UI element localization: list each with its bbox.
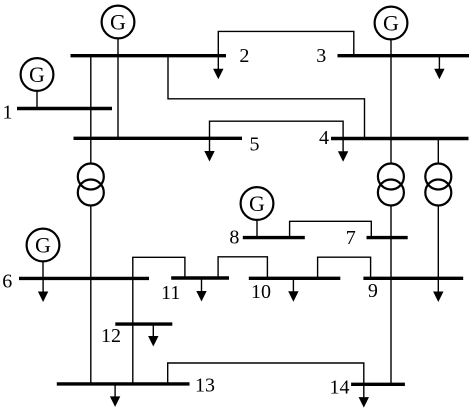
wire line 6-12 bbox=[132, 278, 134, 324]
bus 8 bar bbox=[243, 236, 305, 239]
bus 14 bar bbox=[351, 383, 405, 386]
svg-text:5: 5 bbox=[250, 133, 260, 155]
svg-text:1: 1 bbox=[3, 101, 13, 123]
svg-text:13: 13 bbox=[195, 375, 215, 397]
wire line 7-9 bbox=[390, 238, 392, 279]
bus 11 bar bbox=[171, 276, 229, 279]
svg-text:11: 11 bbox=[161, 282, 180, 304]
bus 1 bar bbox=[17, 107, 112, 110]
wire line 5-4 bbox=[210, 121, 344, 138]
load arrow bus 14 bbox=[359, 384, 369, 407]
wire line 10-9 bbox=[318, 257, 371, 278]
bus 13 bar bbox=[57, 382, 190, 385]
wire line 7-8 bbox=[290, 221, 372, 237]
transformer 4-7 bbox=[378, 139, 404, 238]
bus 7 bar bbox=[367, 236, 408, 239]
transformer 5-6 bbox=[78, 138, 104, 278]
wire line 6-13 bbox=[90, 278, 92, 384]
wire line 9-14 bbox=[390, 278, 392, 384]
load arrow bus 5 bbox=[204, 138, 214, 161]
wire line 3-4 bbox=[390, 56, 392, 139]
svg-text:12: 12 bbox=[101, 325, 121, 347]
bus 6 bar bbox=[19, 277, 149, 280]
generator G3 bbox=[375, 7, 408, 56]
svg-text:G: G bbox=[29, 62, 45, 87]
svg-text:2: 2 bbox=[239, 45, 249, 67]
svg-text:8: 8 bbox=[229, 226, 239, 248]
generator G6 bbox=[27, 229, 60, 279]
load arrow bus 6 bbox=[38, 278, 48, 302]
generator G2 bbox=[102, 6, 135, 56]
transformer 4-9 bbox=[425, 139, 451, 294]
load arrow bus 3 bbox=[434, 56, 444, 80]
wire line 2-4 bbox=[168, 56, 365, 139]
svg-text:G: G bbox=[383, 10, 399, 35]
svg-text:9: 9 bbox=[368, 280, 378, 302]
bus 9 bar bbox=[363, 277, 463, 280]
wire line 12-13 bbox=[132, 324, 134, 384]
bus 10 bar bbox=[249, 277, 340, 280]
svg-text:G: G bbox=[110, 9, 126, 34]
bus 2 bar bbox=[71, 54, 227, 57]
wire line 1-5 bbox=[90, 109, 92, 139]
svg-text:G: G bbox=[249, 191, 265, 216]
generator G8 bbox=[241, 187, 274, 238]
svg-text:10: 10 bbox=[251, 281, 271, 303]
svg-text:4: 4 bbox=[319, 127, 329, 149]
wire line 13-14 bbox=[168, 363, 364, 384]
bus 5 bar bbox=[74, 137, 243, 140]
load arrow bus 2 bbox=[213, 56, 223, 80]
wire line 2-5 bbox=[117, 56, 119, 139]
load arrow bus 13 bbox=[110, 384, 120, 407]
load arrow bus 11 bbox=[196, 278, 206, 302]
svg-text:7: 7 bbox=[346, 227, 356, 249]
load arrow bus 12 bbox=[148, 324, 158, 346]
svg-text:3: 3 bbox=[316, 45, 326, 67]
bus 4 bar bbox=[331, 137, 469, 140]
wire line 6-11 bbox=[133, 257, 185, 278]
bus 12 bar bbox=[115, 322, 172, 325]
svg-text:14: 14 bbox=[330, 376, 350, 398]
svg-text:G: G bbox=[35, 232, 51, 257]
wire line 2-3 bbox=[218, 31, 353, 55]
wire line 11-10 bbox=[218, 257, 267, 279]
wire line 1-2 bbox=[90, 56, 92, 109]
load arrow bus 10 bbox=[288, 278, 298, 302]
svg-text:6: 6 bbox=[2, 271, 12, 293]
bus 3 bar bbox=[338, 54, 470, 57]
load arrow bus 9 bbox=[433, 292, 443, 303]
generator G1 bbox=[21, 58, 54, 108]
load arrow bus 4 bbox=[338, 139, 348, 162]
